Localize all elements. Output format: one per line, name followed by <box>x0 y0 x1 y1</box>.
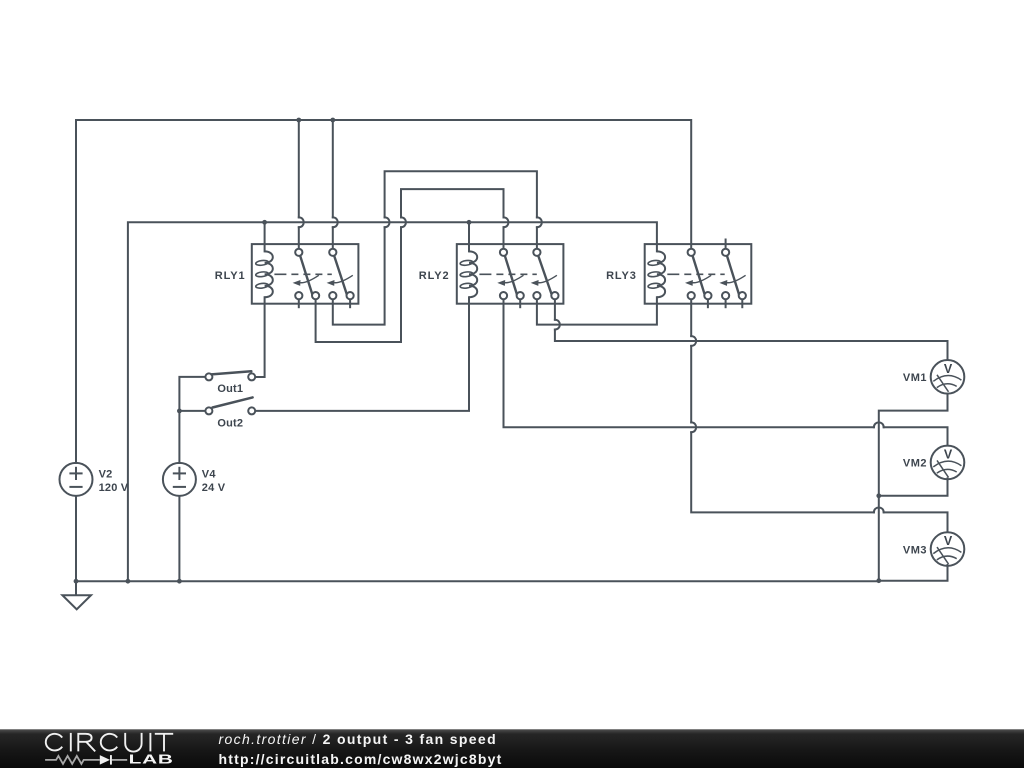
switch Out1 <box>205 373 255 380</box>
relay RLY1 unused pin stub <box>298 299 300 308</box>
svg-text:Out1: Out1 <box>217 383 243 395</box>
svg-text:24 V: 24 V <box>202 482 226 494</box>
relay RLY3 unused pin stub <box>707 299 709 308</box>
relay RLY2 actuation dashed link <box>479 273 536 275</box>
relay RLY3 coil loop 3 <box>648 283 661 289</box>
svg-text:V: V <box>944 362 953 376</box>
relay RLY3 unused pin stub <box>725 299 727 308</box>
voltage source V2 <box>60 463 93 496</box>
relay RLY2 coil loop 3 <box>460 283 473 289</box>
relay RLY3 actuation dashed link <box>667 273 724 275</box>
relay RLY3 body <box>645 244 752 304</box>
relay RLY2 switch B pins <box>533 249 558 300</box>
svg-text:http://circuitlab.com/cw8wx2wj: http://circuitlab.com/cw8wx2wjc8byt <box>219 751 503 767</box>
relay RLY3 switch A actuation arrow <box>685 275 711 286</box>
node: VM1/VM2 return junction <box>876 493 881 498</box>
relay RLY1 switch A actuation arrow <box>293 275 319 286</box>
relay RLY2 switch B actuation arrow <box>531 275 557 286</box>
wire: VM2 bottom to return riser <box>879 478 948 495</box>
relay RLY1 switch B actuation arrow <box>327 275 353 286</box>
relay RLY3 switch B arm <box>727 256 739 295</box>
relay RLY1 switch A pins <box>295 249 319 300</box>
relay RLY2 coil loop 1 <box>460 260 473 266</box>
wire: VM3 bottom to return riser <box>879 565 948 581</box>
relay RLY1 switch A arm <box>300 256 312 295</box>
relay RLY1 coil loop 2 <box>255 271 268 277</box>
node: ground rail / coil-rail riser <box>126 579 131 584</box>
voltmeter VM3 <box>931 532 965 566</box>
wire: RLY1 coil top from common rail <box>264 222 266 251</box>
svg-text:120 V: 120 V <box>99 482 129 494</box>
wire: RLY2 swA output to VM1... (y427 line to VM2) <box>504 299 874 427</box>
relay RLY1 switch B pins <box>329 249 354 300</box>
relay RLY1 body <box>252 244 359 304</box>
node: top bus / RLY1 swA tap <box>296 118 301 123</box>
switch Out2 arm <box>213 397 253 407</box>
voltmeter VM1 face <box>933 375 961 392</box>
wire: V2 positive rail (left riser, top bus, drop to RLY3 pin) <box>76 120 691 463</box>
node: coil rail / RLY1 coil tap <box>262 220 267 225</box>
relay RLY2 switch A actuation arrow <box>497 275 523 286</box>
svg-text:RLY1: RLY1 <box>215 270 246 282</box>
svg-text:VM2: VM2 <box>903 458 927 470</box>
switch Out1 arm <box>212 371 252 374</box>
wire: RLY2 swB-right output to VM1 (hop over y324 wire) <box>554 299 556 320</box>
relay RLY2 switch A arm <box>505 256 517 295</box>
wire: RLY1 swB output to RLY2 swB common (two hops) <box>333 227 385 324</box>
logo CIRCUIT wordmark (drawn) <box>46 733 173 752</box>
wire: relay-coil common rail (riser at x128, bus y222, drop into RLY3 coil) <box>128 222 657 581</box>
node: top bus / RLY1 swB tap <box>330 118 335 123</box>
logo diode symbol <box>100 755 112 765</box>
wire: V4 negative lead to ground rail <box>178 496 180 581</box>
wire: VM1 bottom down the shared return riser <box>879 394 948 581</box>
svg-text:V2: V2 <box>99 469 113 481</box>
voltmeter VM2 <box>931 446 965 480</box>
voltage source V4 <box>163 463 196 496</box>
relay RLY2 coil loop 2 <box>460 271 473 277</box>
ground symbol <box>62 581 91 609</box>
wire: RLY2 coil bottom to Out2 right terminal <box>255 297 469 411</box>
svg-text:RLY3: RLY3 <box>606 270 637 282</box>
relay RLY1 coil <box>265 251 273 297</box>
svg-text:LAB: LAB <box>129 752 174 767</box>
wire: RLY2 coil top from common rail <box>468 222 470 251</box>
relay RLY2 body <box>457 244 564 304</box>
relay RLY3 switch A pins <box>688 249 712 300</box>
relay RLY3 unused pin stub <box>741 299 743 308</box>
relay RLY2 switch B arm <box>538 256 551 295</box>
node: VM3 / ground-rail return junction <box>876 578 881 583</box>
svg-text:VM1: VM1 <box>903 372 927 384</box>
relay RLY2 switch A pins <box>500 249 524 300</box>
wire: top bus to RLY1 switch-A common (with hop) <box>298 120 300 217</box>
wire: ground bottom rail <box>76 580 879 582</box>
svg-text:RLY2: RLY2 <box>419 270 450 282</box>
svg-text:V4: V4 <box>202 469 217 481</box>
relay RLY2 unused pin stub <box>519 299 521 308</box>
voltmeter VM3 face <box>933 547 961 564</box>
wire: V2 negative lead to ground rail <box>75 496 77 581</box>
relay RLY1 coil loop 3 <box>255 283 268 289</box>
node: ground rail / V4- <box>177 579 182 584</box>
wire: Out1 left lead and riser to Out2 node <box>179 377 205 411</box>
wire: top bus to RLY1 switch-B common (with hop) <box>332 120 334 217</box>
wire: RLY3 swA output down to VM3 (hops over y341 and y427 wires) <box>690 299 692 336</box>
logo resistor-diode glyph <box>45 756 127 764</box>
switch Out2 <box>205 407 255 414</box>
relay RLY3 coil loop 2 <box>648 271 661 277</box>
relay RLY1 unused pin stub <box>349 299 351 308</box>
relay RLY1 actuation dashed link <box>274 273 331 275</box>
svg-text:roch.trottier / 2 output - 3 f: roch.trottier / 2 output - 3 fan speed <box>219 731 497 747</box>
node: coil rail / RLY2 coil tap <box>467 220 472 225</box>
relay RLY1 switch B arm <box>334 256 347 295</box>
node: V4+ / Out1 / Out2 junction <box>177 409 182 414</box>
relay RLY3 unused top pin stub <box>725 239 727 249</box>
svg-text:Out2: Out2 <box>217 417 243 429</box>
voltmeter VM1 <box>931 360 965 394</box>
wire: RLY1 coil bottom to Out1 right terminal <box>255 297 264 377</box>
wire: Out2 left lead <box>179 410 205 412</box>
relay RLY3 switch A arm <box>693 256 705 295</box>
node: ground rail / V2- <box>74 579 79 584</box>
relay RLY1 coil loop 1 <box>255 260 268 266</box>
svg-text:V: V <box>944 447 953 461</box>
wire: RLY1 swA output to RLY2 swA common (two hops) <box>316 227 401 342</box>
relay RLY3 switch B pins <box>722 249 746 300</box>
relay RLY3 coil loop 1 <box>648 260 661 266</box>
voltmeter VM2 face <box>933 460 961 477</box>
relay RLY3 coil <box>657 251 665 297</box>
svg-text:V: V <box>944 534 953 548</box>
wire: V4 positive lead up to Out2 node <box>178 411 180 463</box>
relay RLY2 coil <box>469 251 477 297</box>
relay RLY3 switch B actuation arrow <box>719 275 745 286</box>
svg-text:VM3: VM3 <box>903 544 927 556</box>
wire: RLY2 swB-left output to RLY3 coil bottom <box>537 297 657 324</box>
